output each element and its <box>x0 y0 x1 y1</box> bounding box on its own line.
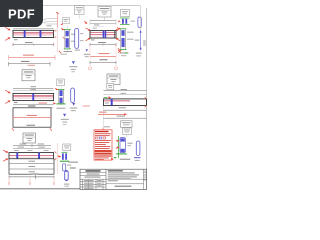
S2 labels right <box>127 32 134 33</box>
table column lines <box>82 179 84 189</box>
red arrow beam1 bottom-left <box>5 37 10 40</box>
red arrows S5 left <box>116 140 120 142</box>
vertical dim arrow far right <box>135 30 146 56</box>
red arrow beam2 bottom-left <box>5 100 10 103</box>
red arrow top-mid <box>84 21 88 24</box>
red arrow S3 top <box>55 88 59 91</box>
ladder dims above beam1 right <box>44 12 59 27</box>
label box above S5 <box>123 128 132 137</box>
black dim below beam3 <box>90 59 116 64</box>
label box above S3 <box>57 79 65 86</box>
end plate detail D1 <box>61 18 70 26</box>
table cell texts <box>84 180 94 181</box>
red dim row beam1 <box>9 55 55 60</box>
table rows <box>80 181 106 183</box>
red tick S2 bottom <box>118 48 120 50</box>
capsule C3 <box>71 88 75 103</box>
red corner ticks below tall box <box>12 128 14 131</box>
label box LB6 <box>107 74 120 85</box>
red arrow beam3 bottom-left <box>86 38 91 41</box>
red vertical extension row1 <box>56 27 58 52</box>
red arrow S2 top <box>117 27 121 30</box>
dims below beam4R <box>104 106 147 128</box>
red arrows beam5 left <box>3 150 8 161</box>
drawing bottom border <box>0 188 147 190</box>
dims above beam4R <box>104 89 147 95</box>
dims above beam5 <box>13 144 51 152</box>
red text above LB3 <box>28 65 36 66</box>
beam 4R <box>104 99 147 106</box>
S2 text below <box>120 53 129 54</box>
text above bottom line <box>27 125 36 126</box>
bottom center cell <box>106 183 144 185</box>
plan box below beam5 <box>9 159 54 174</box>
red tick S1 mid <box>62 37 64 39</box>
red dim below beam3 <box>90 47 116 60</box>
red arrow beam2 top-left <box>5 90 10 93</box>
S5 text right <box>128 143 133 144</box>
capsule C1 <box>75 28 79 48</box>
svg-text:PDF: PDF <box>8 7 35 22</box>
dim above beam 1 <box>13 28 54 30</box>
right column <box>143 169 145 189</box>
S1 labels right <box>71 34 76 35</box>
dim below beam1 <box>12 42 55 46</box>
weld arrow right of C3 <box>70 103 78 111</box>
second dim below <box>104 116 147 119</box>
beam1 stiffener A <box>24 30 26 37</box>
detail D2 colored section <box>118 18 135 24</box>
red marks beam5 right <box>55 151 57 153</box>
capsule C2 <box>138 17 141 28</box>
dims above beam3 <box>90 19 116 29</box>
red tick S1 bottom-left <box>59 51 62 54</box>
beam 3 <box>90 31 116 38</box>
capsule C4 <box>134 141 141 161</box>
overall top dim line <box>43 5 141 7</box>
row2 <box>80 175 106 177</box>
red marks beam1 right end <box>54 29 57 31</box>
red vertical extension <box>56 143 58 174</box>
detail D2 box <box>121 10 130 17</box>
red arrow S4 left <box>57 155 61 157</box>
pen text under beam2 left <box>14 102 18 103</box>
address cell text lines <box>108 170 123 171</box>
drawing right border <box>146 8 148 190</box>
row3 <box>80 178 147 180</box>
black dim row 2 beam1 <box>9 61 50 66</box>
tiny text on beam4R left <box>105 103 109 104</box>
S5 marks below <box>111 157 131 160</box>
S3 text below <box>57 108 66 109</box>
beam 1 web <box>13 30 54 37</box>
pen text under beam1 left <box>14 39 18 40</box>
weld callout DA1 below S1 <box>69 61 77 72</box>
red dim inside tall box <box>27 115 38 116</box>
weld arrow + text right of S1 <box>84 49 90 57</box>
red arrow beam3 top-left <box>86 28 91 31</box>
dim below beam2 + red text <box>13 103 54 108</box>
label box LB4 <box>23 133 36 143</box>
dim below beam3 <box>89 42 117 46</box>
S4 text right <box>69 162 79 163</box>
label box LB1 <box>75 6 85 20</box>
weld callout DA2 <box>61 114 69 125</box>
red hooks below dim ends <box>89 65 91 68</box>
green tick + red mark left of beam4R <box>104 97 108 99</box>
beam1 red flange lines <box>13 31 53 33</box>
label box LB7 <box>121 121 133 128</box>
red arrow S3 bottom-left <box>53 102 57 104</box>
dims above beam2 <box>13 86 54 91</box>
red text right <box>83 106 91 107</box>
red arrow S1 top <box>61 28 65 31</box>
red marks right end beam4R <box>145 97 147 99</box>
label box LB5 <box>63 144 71 151</box>
red cross mark right <box>118 50 121 53</box>
label box above <box>107 84 114 90</box>
dim below plan box <box>8 173 55 184</box>
red arrow beam1 top-left <box>5 27 10 30</box>
right overall extension <box>140 6 142 31</box>
pen text under beam3 left <box>91 39 95 40</box>
header cell <box>80 172 106 174</box>
beam 2 <box>13 93 54 100</box>
S1 text below <box>64 51 73 52</box>
beam 5 <box>9 153 54 159</box>
capsule below S4 (upper) <box>62 164 65 171</box>
beam1 stiffener B <box>40 30 42 37</box>
label box LB3 <box>22 70 35 81</box>
red arrow dim <box>98 112 127 116</box>
label box LB2 <box>98 7 111 21</box>
red arrows beam3 right <box>115 28 120 31</box>
